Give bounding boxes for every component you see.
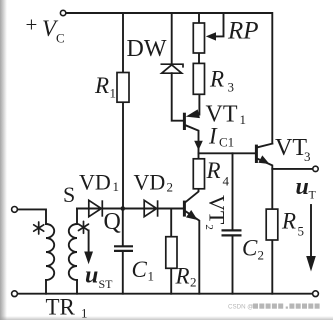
svg-text:+: + [26,13,38,37]
svg-text:4: 4 [223,174,230,189]
svg-text:2: 2 [190,275,197,290]
svg-text:1: 1 [240,112,247,127]
svg-text:C: C [132,257,148,282]
svg-text:VD: VD [79,170,111,195]
svg-text:CSDN @: CSDN @ [228,304,254,311]
svg-text:I: I [208,124,218,149]
svg-text:2: 2 [258,248,265,263]
svg-text:T: T [309,188,317,202]
svg-text:VT: VT [275,135,307,161]
svg-text:1: 1 [81,306,88,320]
svg-text:TR: TR [46,295,76,320]
svg-text:R: R [281,209,296,234]
svg-text:u: u [85,263,98,289]
svg-text:C1: C1 [219,135,234,150]
svg-text:R: R [206,158,221,183]
svg-text:R: R [175,264,190,289]
svg-text:1: 1 [148,269,155,284]
svg-text:C: C [242,236,258,261]
svg-text:C: C [56,31,65,46]
svg-text:1: 1 [113,179,120,194]
svg-text:3: 3 [304,149,311,164]
svg-text:S: S [63,182,75,207]
svg-text:Q: Q [104,209,121,235]
svg-text:3: 3 [228,80,235,95]
svg-text:ST: ST [99,277,114,291]
svg-text:DW: DW [127,36,167,62]
svg-text:5: 5 [298,224,305,239]
svg-text:VD: VD [134,170,166,195]
svg-text:1: 1 [110,86,117,101]
svg-text:u: u [296,174,309,200]
svg-text:2: 2 [167,180,174,195]
svg-text:R: R [209,67,224,92]
svg-text:RP: RP [227,18,259,45]
svg-text:R: R [94,73,109,98]
